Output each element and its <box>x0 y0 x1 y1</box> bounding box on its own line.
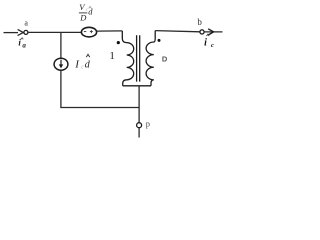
current arrow i_a on left lead <box>18 29 24 35</box>
node: junction of current-source branch with top wire <box>60 32 62 58</box>
wire: current source bottom lead and bottom rail to node p <box>61 70 139 107</box>
terminal a (open circle) <box>24 30 28 34</box>
value label (V/D)d-hat for E1 <box>79 2 93 23</box>
label i_c (hat) <box>204 34 214 49</box>
polarity dot secondary <box>158 39 161 42</box>
transformer T1 primary winding (1 side) <box>122 31 133 86</box>
wire: terminal a to voltage source <box>28 31 82 33</box>
wire: stub below terminal p <box>138 128 140 138</box>
wire: voltage source to transformer primary top <box>97 30 123 32</box>
terminal b (open circle) <box>200 30 204 34</box>
plus sign inside E1 <box>90 30 93 33</box>
transformer core bars <box>137 35 140 81</box>
label i_a (hat) <box>18 38 26 50</box>
minus sign inside E1 <box>84 31 87 33</box>
wire: left lead into terminal a <box>4 32 19 34</box>
voltage source E1 (V/D)d-hat <box>81 27 96 37</box>
current source J1 I d-hat <box>54 58 68 70</box>
wire: terminal b to right edge <box>204 31 222 33</box>
wire: center tap down to terminal p <box>138 86 140 123</box>
svg-text:D: D <box>162 55 168 64</box>
terminal p (open circle) <box>137 123 142 128</box>
value label I d-hat for J1 <box>74 54 91 70</box>
arrow inside J1 (downward) <box>60 60 62 66</box>
current arrow i_c on right lead <box>208 29 213 35</box>
svg-text:b: b <box>197 17 202 27</box>
svg-text:D: D <box>79 12 87 22</box>
svg-text:a: a <box>22 42 26 50</box>
svg-text:i: i <box>204 38 207 49</box>
wire: transformer secondary top to terminal b <box>155 31 200 32</box>
svg-text:p: p <box>146 119 150 129</box>
polarity dot primary <box>117 41 120 44</box>
wire: transformer bottom bracket <box>123 85 151 87</box>
svg-text:a: a <box>24 19 28 28</box>
transformer T1 secondary winding (D side) <box>146 31 155 86</box>
svg-text:1: 1 <box>109 50 115 62</box>
svg-text:c: c <box>211 42 214 49</box>
